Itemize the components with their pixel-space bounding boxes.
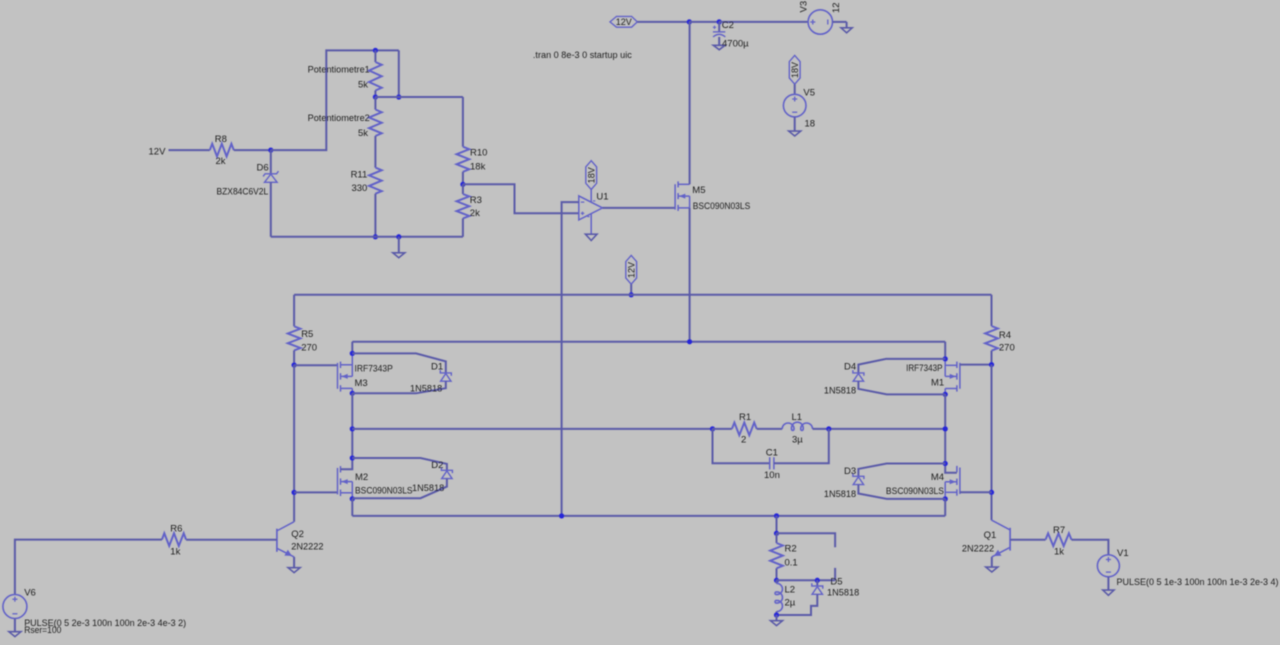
node junction D6/R8 — [268, 147, 273, 152]
wire V1 to ground — [1107, 577, 1109, 590]
wire M3 gate — [294, 364, 337, 366]
svg-text:R8: R8 — [215, 134, 227, 145]
svg-text:R5: R5 — [301, 329, 313, 340]
wire M5 drain up to 12V node — [689, 22, 691, 184]
svg-text:PULSE(0 5 1e-3 100n 100n 1e-3: PULSE(0 5 1e-3 100n 100n 1e-3 2e-3 4) — [1117, 577, 1279, 588]
svg-text:1k: 1k — [170, 547, 180, 558]
nmos M4 (BSC090N03LS) — [959, 468, 961, 495]
svg-text:12: 12 — [831, 2, 842, 13]
npn transistor Q1 (2N2222, mirrored) — [1009, 528, 1011, 551]
wire minus input feedback down to bridge output — [562, 202, 579, 516]
resistor R10 (18k) — [457, 147, 470, 172]
wire junction to C2 node — [689, 21, 719, 23]
node junction R2 bottom / L2 top — [774, 578, 779, 583]
svg-text:IRF7343P: IRF7343P — [355, 364, 393, 375]
wire M4 gate to Q1 node — [960, 491, 992, 493]
resistor R2 (0.1) — [776, 533, 778, 543]
inductor L1 (3u) — [782, 422, 812, 430]
wire Q2 emitter to ground — [293, 557, 295, 568]
svg-text:R4: R4 — [999, 330, 1011, 341]
wire R10 top — [462, 97, 464, 147]
svg-text:3µ: 3µ — [792, 434, 803, 445]
svg-text:12V: 12V — [616, 17, 632, 27]
node junction right of pot1 — [396, 94, 401, 99]
node junction M4 gate — [989, 490, 994, 495]
capacitor C1 (10n) — [713, 429, 770, 463]
node junction C2 — [717, 19, 722, 24]
node junction M1 source / D4 cathode — [943, 356, 948, 361]
wire U1 output to M5 gate — [603, 207, 676, 209]
ground right of V3 — [846, 22, 848, 28]
svg-text:D1: D1 — [431, 361, 443, 372]
wire V3 to ground — [833, 21, 847, 23]
node junction M3 gate — [291, 362, 296, 367]
svg-text:10n: 10n — [764, 470, 780, 481]
pmos M1 (IRF7343P) — [959, 363, 961, 389]
svg-text:2: 2 — [741, 434, 746, 445]
svg-text:M1: M1 — [931, 378, 944, 389]
op-amp U1 — [579, 196, 603, 220]
node junction M1 drain / D4 anode — [943, 392, 948, 397]
svg-text:R7: R7 — [1053, 525, 1065, 536]
svg-text:L2: L2 — [785, 585, 796, 596]
node junction R10/R3 divider — [460, 182, 465, 187]
ground below pot network — [398, 237, 400, 253]
resistor R11 (330) — [369, 168, 382, 194]
node junction snubber right — [826, 426, 831, 431]
wire M3 drain to M2 drain — [351, 393, 353, 458]
wire R8 to D6 node — [234, 149, 271, 151]
wire C2 node to V3 — [719, 21, 808, 23]
node junction feedback on bottom rail — [559, 513, 564, 518]
resistor R4 (270) — [991, 295, 993, 326]
svg-text:D4: D4 — [844, 361, 856, 372]
resistor R8 (2k) — [210, 144, 234, 157]
svg-text:Rser=100: Rser=100 — [24, 625, 61, 636]
net flag 18V above V5 — [789, 55, 800, 84]
svg-text:M5: M5 — [692, 185, 705, 196]
svg-text:18: 18 — [805, 118, 816, 129]
wire Q2 base to R6 — [186, 539, 277, 541]
wire R7 to V1 — [1072, 540, 1109, 555]
svg-text:18V: 18V — [587, 167, 597, 183]
svg-text:2N2222: 2N2222 — [291, 542, 323, 553]
zener diode D6 (BZX84C6V2L) — [270, 150, 272, 174]
resistor R5 (270) — [293, 295, 295, 327]
svg-text:M4: M4 — [931, 472, 944, 483]
svg-text:5k: 5k — [358, 128, 368, 139]
net flag 18V above U1 — [586, 161, 597, 190]
resistor R7 (1k) — [1046, 533, 1072, 546]
ground below Q2 — [288, 568, 300, 573]
ground below L2 — [776, 615, 778, 621]
wire open stub lower — [834, 568, 836, 580]
wire M1 gate to R4 node — [960, 364, 992, 366]
node junction M4 source / D3 anode — [943, 496, 948, 501]
svg-text:1k: 1k — [1054, 547, 1064, 558]
svg-text:R2: R2 — [785, 543, 797, 554]
svg-text:Potentiometre2: Potentiometre2 — [308, 113, 370, 124]
node junction pot1 bottom — [373, 94, 378, 99]
svg-text:1N5818: 1N5818 — [410, 383, 442, 394]
capacitor C2 (polarized 4700u) — [718, 22, 720, 32]
node junction snubber left — [710, 426, 715, 431]
schottky diode D5 (1N5818) — [816, 580, 818, 586]
wire R2 bottom to D5 — [777, 579, 836, 581]
node junction M1-M4 output — [943, 426, 948, 431]
svg-text:1N5818: 1N5818 — [412, 483, 444, 494]
wire pot mid node to R10 column — [375, 96, 463, 98]
wire bridge rail down to M3 source — [351, 342, 353, 354]
svg-text:L1: L1 — [792, 412, 803, 423]
node junction M3 source / D1 cathode — [350, 351, 355, 356]
wire D6 node right then up to pot top rail — [271, 50, 399, 150]
svg-text:12V: 12V — [627, 262, 637, 278]
node junction 12V mid rail — [629, 292, 634, 297]
svg-text:1N5818: 1N5818 — [824, 385, 856, 396]
svg-text:270: 270 — [999, 343, 1015, 354]
wire Q1 emitter to ground — [991, 557, 993, 567]
svg-text:V3: V3 — [799, 1, 810, 13]
wire open stub upper — [777, 533, 836, 547]
wire flag to V5 — [794, 84, 796, 94]
wire V6 to ground — [14, 619, 16, 632]
svg-text:D2: D2 — [431, 460, 443, 471]
node junction M4 drain / D3 cathode — [943, 461, 948, 466]
node junction R11 bottom — [373, 234, 378, 239]
wire Q1 base to R7 — [1010, 539, 1045, 541]
schottky diode D3 (1N5818) — [858, 464, 945, 477]
npn transistor Q2 (2N2222) — [276, 529, 278, 552]
node junction ground stub — [396, 234, 401, 239]
resistor R3 (2k) — [462, 184, 464, 194]
node junction M5 source on bridge rail — [687, 339, 692, 344]
wire M2 source down to bottom rail — [351, 499, 353, 516]
svg-text:D3: D3 — [844, 466, 856, 477]
inductor L2 (2u) — [776, 580, 778, 583]
svg-text:12V: 12V — [149, 146, 167, 157]
node junction at M5 drain column — [687, 19, 692, 24]
ground below Q1 — [986, 567, 998, 572]
nmos M2 (BSC090N03LS) — [337, 468, 339, 495]
svg-text:V6: V6 — [24, 588, 36, 599]
svg-text:270: 270 — [301, 342, 317, 353]
svg-text:BSC090N03LS: BSC090N03LS — [355, 486, 413, 497]
net flag 12V (top supply) — [610, 16, 637, 27]
node junction R2 top — [774, 531, 779, 536]
wire 12V flag to junction — [637, 21, 689, 23]
resistor R6 (1k) — [162, 533, 186, 546]
svg-text:1N5818: 1N5818 — [827, 587, 859, 598]
wire V5 to ground — [794, 117, 796, 131]
svg-text:2k: 2k — [470, 208, 480, 219]
node junction D5 top — [815, 578, 820, 583]
wire right column R4 to Q1 collector — [991, 365, 993, 520]
svg-text:0.1: 0.1 — [785, 558, 798, 569]
wire M5 source down to bridge rail — [689, 208, 691, 342]
wire M2 gate — [294, 491, 337, 493]
svg-text:M3: M3 — [355, 378, 368, 389]
svg-text:1N5818: 1N5818 — [824, 489, 856, 500]
svg-text:.tran 0 8e-3 0 startup uic: .tran 0 8e-3 0 startup uic — [533, 50, 632, 61]
wire pot top right corner down — [398, 50, 400, 97]
node junction M2 gate — [291, 490, 296, 495]
wire R6 to V6 — [15, 540, 162, 595]
wire bridge supply rail — [352, 341, 945, 343]
svg-text:R10: R10 — [470, 147, 487, 158]
ground below V6 — [9, 632, 21, 637]
schottky diode D4 (1N5818) — [858, 359, 945, 373]
ground below U1 — [585, 234, 597, 240]
pmos M3 (IRF7343P) — [337, 363, 339, 389]
svg-text:C2: C2 — [722, 20, 734, 31]
svg-text:Q1: Q1 — [984, 530, 997, 541]
wire flag stub — [630, 284, 632, 295]
voltage source V1 (PULSE) — [1097, 555, 1119, 577]
svg-text:Potentiometre1: Potentiometre1 — [308, 65, 370, 76]
schottky diode D1 (1N5818) — [352, 353, 446, 372]
svg-text:D5: D5 — [830, 576, 842, 587]
voltage source V5 (18) — [783, 94, 806, 117]
svg-text:C1: C1 — [766, 448, 778, 459]
svg-text:4700µ: 4700µ — [722, 38, 749, 49]
wire bridge bottom rail — [352, 515, 945, 517]
svg-text:V5: V5 — [803, 87, 815, 98]
wire bridge output rail left — [352, 428, 712, 430]
wire bridge output rail right — [829, 428, 945, 430]
wire M4 source down to bottom rail — [944, 499, 946, 516]
svg-text:5k: 5k — [358, 80, 368, 91]
svg-text:IRF7343P: IRF7343P — [906, 363, 942, 374]
ground below C2 — [713, 45, 725, 49]
svg-text:R6: R6 — [170, 523, 182, 534]
node junction M3 drain / D1 anode — [350, 391, 355, 396]
resistor R1 (2) — [713, 428, 732, 430]
svg-text:2k: 2k — [216, 156, 226, 167]
svg-text:Q2: Q2 — [291, 529, 304, 540]
svg-text:M2: M2 — [355, 472, 368, 483]
ground below V1 — [1103, 590, 1114, 595]
svg-text:2N2222: 2N2222 — [962, 543, 994, 554]
wire left column R5 to Q2 collector — [293, 365, 295, 522]
node junction pot1 top — [373, 48, 378, 53]
node junction L2 bottom — [774, 612, 779, 617]
svg-text:U1: U1 — [596, 192, 608, 203]
nmos M5 (BSC090N03LS) — [674, 184, 676, 209]
node junction bridge left output — [350, 426, 355, 431]
bottom rail of pot network — [271, 236, 463, 238]
wire M1 drain down to output rail — [944, 394, 946, 429]
potentiometer 2 (5k) — [374, 97, 376, 110]
ground below V5 — [789, 131, 801, 136]
wire 12V to R8 — [169, 149, 210, 151]
potentiometer 1 (5k) — [374, 50, 376, 62]
svg-text:BSC090N03LS: BSC090N03LS — [693, 201, 751, 212]
wire bridge output down to M4 drain — [944, 429, 946, 464]
svg-text:R11: R11 — [351, 169, 368, 180]
node junction M1 gate / R4 — [989, 362, 994, 367]
node junction M2 source / D2 anode — [350, 496, 355, 501]
wire bridge rail down to M1 source — [944, 342, 946, 359]
svg-text:D6: D6 — [257, 162, 269, 173]
wire divider to op-amp plus input — [463, 184, 579, 213]
svg-text:BZX84C6V2L: BZX84C6V2L — [217, 187, 269, 198]
voltage source V3 (12) — [808, 10, 832, 34]
svg-text:R1: R1 — [739, 412, 751, 423]
svg-text:2µ: 2µ — [785, 598, 796, 609]
svg-text:V1: V1 — [1117, 548, 1129, 559]
schottky diode D2 (1N5818) — [352, 458, 447, 470]
svg-text:18V: 18V — [790, 62, 800, 78]
svg-text:BSC090N03LS: BSC090N03LS — [886, 486, 944, 497]
node junction M2 drain / D2 cathode — [350, 455, 355, 460]
net flag 12V mid rail — [626, 255, 637, 284]
wire bottom rail to R2 node — [776, 516, 778, 533]
svg-text:330: 330 — [351, 183, 367, 194]
wire gate-supply rail R5 to R4 — [294, 294, 991, 296]
svg-text:R3: R3 — [470, 195, 482, 206]
voltage source V6 (PULSE) — [3, 595, 27, 619]
svg-text:18k: 18k — [470, 161, 486, 172]
node junction R2 branch on bottom rail — [774, 513, 779, 518]
